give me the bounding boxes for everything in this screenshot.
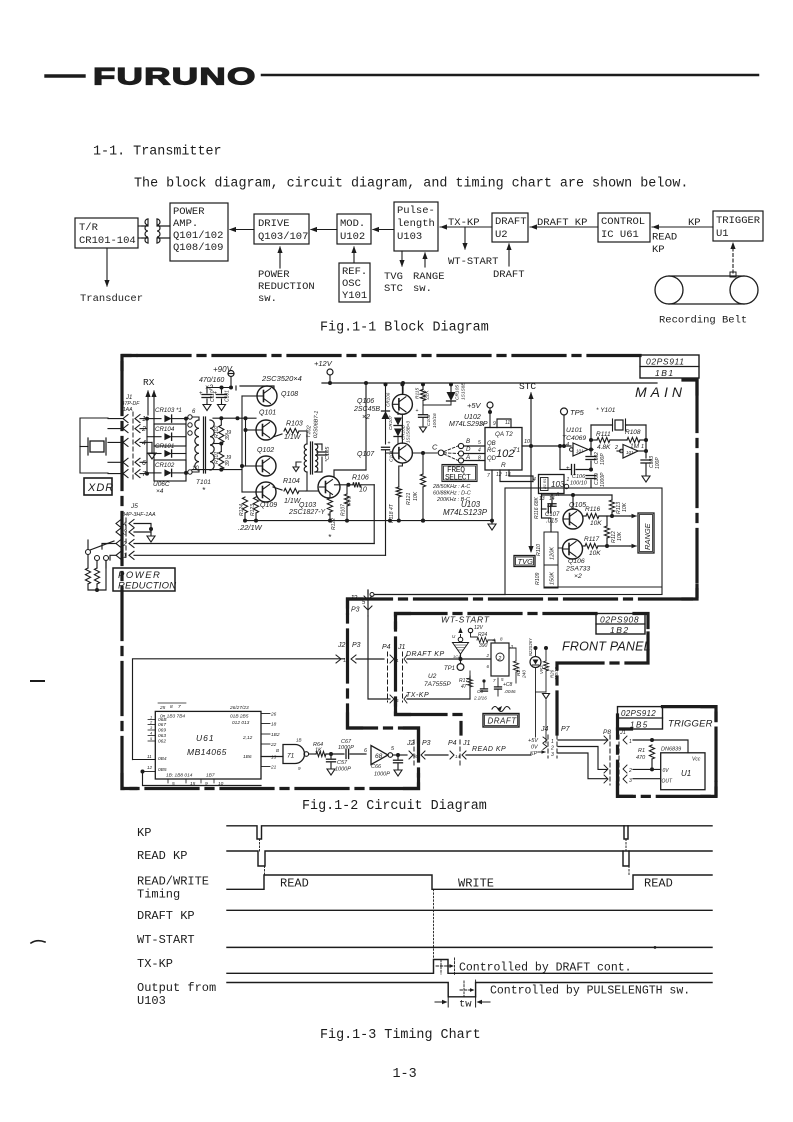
wire diode output bus (185, 419, 187, 473)
svg-text:DRAFT: DRAFT (493, 269, 525, 281)
margin mark 1 (31, 680, 44, 682)
svg-text:C107: C107 (545, 512, 560, 518)
svg-text:N22S26Y: N22S26Y (528, 637, 533, 656)
FURUNO logo (93, 63, 257, 90)
svg-text:J2: J2 (406, 740, 415, 747)
svg-text:T101: T101 (196, 479, 211, 486)
diode CR101 (147, 453, 161, 455)
wire TRIGGER 0V (633, 768, 661, 770)
svg-text:READ KP: READ KP (137, 849, 187, 863)
svg-text:2SC45B: 2SC45B (353, 406, 380, 413)
svg-text:390: 390 (479, 643, 488, 649)
svg-text:3: 3 (150, 725, 153, 730)
svg-text:2SC1827-Y: 2SC1827-Y (288, 509, 327, 516)
svg-text:MOD.: MOD. (340, 218, 365, 230)
svg-text:U102: U102 (340, 231, 365, 243)
J1 pin 2 (123, 425, 128, 433)
svg-text:7: 7 (487, 473, 490, 479)
svg-text:15: 15 (190, 781, 196, 787)
inverter U101b (623, 445, 638, 459)
IC U1 DN6839 (661, 753, 705, 790)
guide dotted KP2 (625, 839, 627, 851)
svg-text:68: 68 (375, 753, 383, 760)
svg-text:P3: P3 (352, 642, 361, 649)
svg-text:7: 7 (178, 704, 181, 710)
J1 pin 6 (123, 458, 128, 466)
diode CR104 (147, 436, 161, 438)
svg-text:P4: P4 (382, 644, 391, 651)
ground (front panel) (536, 691, 547, 693)
wire U102 pin7 ground bus (491, 470, 493, 521)
board id box 02PS911 1B1 (640, 355, 699, 378)
svg-text:J2: J2 (337, 642, 346, 649)
resistor R122 (327, 498, 332, 512)
svg-text:2: 2 (614, 445, 618, 451)
callout bracket U103 (463, 981, 465, 997)
NAND gate 71 (283, 745, 305, 764)
svg-text:069: 069 (158, 728, 166, 734)
waveform Output U103 (227, 983, 712, 997)
draft potentiometer (492, 707, 510, 712)
svg-text:102: 102 (496, 448, 514, 460)
capacitor C109 1000P (590, 468, 592, 471)
svg-text:+12V: +12V (314, 359, 333, 368)
svg-text:CONTROL: CONTROL (601, 216, 645, 228)
transformer (block diagram) (145, 219, 148, 243)
svg-text:MB14065: MB14065 (187, 747, 227, 757)
svg-text:47: 47 (461, 684, 467, 690)
transformer T101 (188, 415, 192, 419)
svg-text:J5: J5 (130, 503, 138, 510)
svg-text:1K: 1K (315, 748, 322, 754)
svg-text:10K: 10K (413, 491, 419, 501)
J1 pin 4 (123, 438, 128, 446)
waveform DRAFT KP (227, 909, 712, 911)
svg-text:CR104: CR104 (155, 426, 175, 433)
tw measurement (447, 997, 449, 1007)
svg-text:13: 13 (271, 755, 277, 761)
svg-text:C106: C106 (572, 474, 586, 480)
wire DRAFT to WT-START (464, 227, 466, 249)
svg-text:10: 10 (524, 439, 531, 445)
svg-text:4: 4 (566, 442, 569, 448)
arrow POWER REDUCTION sw to DRIVE (279, 247, 281, 268)
svg-text:R24: R24 (478, 632, 487, 638)
svg-text:71: 71 (287, 753, 295, 760)
svg-text:10: 10 (218, 781, 224, 787)
svg-text:10K: 10K (617, 531, 623, 541)
IC U61 MB14065 (155, 711, 261, 779)
svg-text:1B: 1B8 014: 1B: 1B8 014 (166, 773, 193, 779)
svg-text:R109: R109 (535, 572, 541, 585)
svg-text:28/50KHz : A-C: 28/50KHz : A-C (432, 484, 470, 490)
wire R118 R121 bottom (243, 519, 247, 523)
svg-text:1: 1 (641, 444, 644, 450)
svg-text:Q106: Q106 (568, 558, 585, 565)
svg-text:100P: 100P (655, 457, 661, 469)
capacitor C110 (207, 387, 231, 389)
wire U103 pins (541, 494, 543, 510)
svg-text:TC4069: TC4069 (562, 435, 586, 442)
svg-text:POWER: POWER (258, 269, 290, 281)
capacitor C107 .015 (547, 505, 549, 513)
diode CR103 (147, 418, 161, 420)
wire U61 pin12 loop (143, 772, 262, 786)
svg-text:11: 11 (394, 658, 399, 663)
svg-text:Q103: Q103 (299, 502, 316, 509)
svg-text:READ: READ (652, 232, 677, 244)
svg-text:sw.: sw. (413, 283, 432, 295)
svg-text:TRIGGER: TRIGGER (668, 719, 713, 730)
svg-text:Q107: Q107 (357, 451, 375, 458)
svg-text:2: 2 (486, 653, 490, 658)
svg-text:Q108: Q108 (281, 391, 298, 398)
svg-text:Recording Belt: Recording Belt (659, 315, 747, 327)
crystal transducer XDR (90, 441, 104, 452)
svg-text:R108: R108 (625, 429, 641, 436)
svg-text:3: 3 (123, 530, 127, 537)
svg-text:-1AA: -1AA (121, 407, 133, 413)
svg-text:8: 8 (478, 456, 481, 462)
svg-text:STC: STC (519, 381, 536, 392)
svg-text:U2: U2 (495, 229, 508, 241)
op-amp 68 (371, 746, 388, 765)
svg-text:.0046: .0046 (504, 689, 516, 694)
terminal 12V (front panel) (468, 628, 472, 632)
resistor R109 150K (544, 565, 558, 588)
arrow REF OSC to MOD (353, 247, 355, 262)
svg-text:DRAFT KP: DRAFT KP (137, 909, 195, 923)
POWER REDUCTION label box (113, 568, 175, 591)
svg-text:2.2/16: 2.2/16 (473, 696, 487, 701)
svg-text:240: 240 (522, 670, 528, 679)
wire J2 stc feed (370, 593, 374, 597)
IC U2 TA7555P box (491, 643, 509, 676)
svg-text:+5V: +5V (467, 401, 482, 410)
svg-text:P3: P3 (422, 740, 431, 747)
wire U102 pins 12 13 to U103 (500, 470, 533, 482)
svg-text:WT-START: WT-START (441, 615, 490, 625)
svg-text:39: 39 (225, 460, 231, 466)
wire J5 pins 4 3 join (134, 524, 151, 533)
guide dotted KP1 (259, 839, 261, 851)
svg-text:DRIVE: DRIVE (258, 218, 290, 230)
svg-text:P4: P4 (448, 740, 457, 747)
svg-text:U: U (452, 634, 456, 639)
transistor Q106 (563, 539, 583, 559)
svg-text:*C105: *C105 (325, 446, 331, 462)
svg-text:1000P: 1000P (374, 772, 390, 778)
wire TRIGGER OUT (633, 778, 661, 780)
svg-text:2SC3520×4: 2SC3520×4 (261, 374, 302, 383)
svg-text:100/16: 100/16 (432, 413, 438, 428)
resistor R113 10K (609, 500, 614, 512)
svg-text:R124: R124 (239, 504, 245, 516)
svg-text:FRONT PANEL: FRONT PANEL (562, 640, 651, 654)
svg-text:Q102: Q102 (257, 447, 274, 454)
svg-text:100P: 100P (600, 453, 606, 465)
waveform WT-START (227, 946, 712, 948)
svg-text:B: B (276, 748, 279, 753)
DRAFT label box (483, 714, 519, 728)
svg-text:sw.: sw. (258, 293, 277, 305)
svg-text:Controlled by PULSELENGTH sw.: Controlled by PULSELENGTH sw. (490, 985, 690, 998)
svg-text:TVG: TVG (518, 557, 534, 566)
test point TP5 (561, 408, 568, 415)
block Pulse-length U103 (394, 202, 438, 251)
header rule (262, 74, 758, 77)
svg-text:Fig.1-3 Timing Chart: Fig.1-3 Timing Chart (320, 1028, 481, 1043)
svg-text:CR106: CR106 (386, 392, 391, 407)
diode CR108 (394, 429, 402, 437)
board id box 02PS908 1B2 (596, 614, 645, 635)
block DRIVE Q103/107 (254, 214, 309, 244)
guide dotted WRITE edge (433, 889, 435, 959)
svg-text:M74LS293P: M74LS293P (449, 421, 488, 428)
select contacts B D A (458, 443, 463, 448)
svg-text:Q106: Q106 (357, 398, 374, 405)
svg-text:C66: C66 (371, 764, 382, 770)
resistor R102 39 (219, 425, 224, 443)
svg-text:tw: tw (459, 999, 472, 1011)
svg-text:Q108/109: Q108/109 (173, 242, 223, 254)
svg-text:12: 12 (147, 765, 153, 770)
capacitor C108 100/16 (422, 401, 424, 415)
svg-text:M74LS123P: M74LS123P (443, 508, 488, 517)
comparator U3 (460, 629, 462, 637)
svg-text:+C8: +C8 (503, 682, 513, 688)
svg-text:3: 3 (551, 752, 554, 758)
ground at J1 pin 4 (147, 441, 152, 443)
wire U102 pin10 (522, 445, 571, 447)
svg-text:2: 2 (141, 426, 146, 433)
svg-text:2,12: 2,12 (242, 735, 253, 741)
wire gate to R64 (309, 753, 316, 755)
svg-text:T102: T102 (306, 425, 312, 438)
resistor R118 4T (399, 463, 403, 487)
svg-text:7: 7 (493, 678, 496, 683)
svg-text:60/88KHz : D-C: 60/88KHz : D-C (433, 491, 471, 497)
svg-text:P7: P7 (561, 726, 571, 733)
J5 pin 2 (116, 540, 121, 548)
svg-text:R122: R122 (331, 518, 337, 530)
svg-text:1-1. Transmitter: 1-1. Transmitter (93, 145, 222, 160)
svg-text:10K: 10K (589, 550, 601, 557)
wire J5 pin2 stub (108, 543, 116, 545)
svg-text:STC: STC (384, 283, 403, 295)
margin mark 2 (31, 941, 45, 943)
diode CR102 (147, 472, 161, 474)
thyristor VR2 (530, 657, 541, 668)
svg-text:U1: U1 (716, 228, 729, 240)
svg-text:B: B (466, 438, 470, 445)
svg-text:5: 5 (396, 698, 399, 703)
svg-text:1B5: 1B5 (630, 721, 649, 730)
wire TRIGGER Vcc (633, 740, 688, 753)
svg-text:012 013: 012 013 (232, 720, 250, 726)
svg-text:062: 062 (158, 739, 166, 745)
svg-text:18: 18 (271, 722, 277, 728)
svg-text:+: + (416, 408, 419, 414)
svg-text:Pulse-: Pulse- (397, 205, 435, 217)
svg-text:0V: 0V (531, 745, 539, 751)
svg-text:R104: R104 (283, 478, 300, 485)
svg-text:12V: 12V (474, 625, 484, 631)
svg-text:CR105: CR105 (455, 385, 461, 400)
svg-text:0B4: 0B4 (158, 756, 167, 762)
wire T/R to transformer (138, 225, 142, 227)
wire TX-KP (368, 616, 390, 699)
inverter U101a (573, 443, 588, 456)
svg-text:5: 5 (362, 600, 366, 606)
svg-text:10K: 10K (622, 502, 628, 512)
wire TVG branch (542, 509, 552, 525)
svg-text:R106: R106 (352, 475, 369, 482)
svg-text:Q101: Q101 (259, 410, 276, 417)
arrow TRIGGER to CONTROL (652, 226, 713, 228)
svg-text:READ/WRITE: READ/WRITE (137, 875, 209, 889)
svg-text:R102: R102 (214, 425, 220, 438)
block CONTROL IC U61 (598, 213, 650, 242)
switch resistors (85, 568, 90, 584)
svg-text:R123: R123 (250, 504, 256, 516)
waveform READ KP (227, 851, 712, 866)
svg-text:The block diagram, circuit dia: The block diagram, circuit diagram, and … (134, 176, 688, 191)
svg-text:REDUCTION: REDUCTION (258, 281, 315, 293)
block T/R CR101-104 (75, 218, 138, 248)
svg-text:2: 2 (550, 746, 554, 752)
resistor R115 22K (420, 390, 425, 401)
capacitor C66 1000P (397, 755, 399, 759)
J5 pin 1 (116, 551, 121, 559)
svg-text:U2: U2 (428, 673, 437, 680)
svg-text:063: 063 (158, 733, 166, 739)
svg-text:T1: T1 (513, 448, 520, 454)
svg-text:+: + (214, 390, 218, 397)
transistor Q107 (392, 443, 412, 463)
svg-text:2: 2 (628, 768, 632, 774)
svg-text:Controlled by DRAFT cont.: Controlled by DRAFT cont. (459, 962, 632, 975)
diode CR107 (397, 412, 399, 414)
svg-text:TVG: TVG (384, 271, 403, 283)
svg-text:RX: RX (143, 377, 155, 388)
svg-text:0B5: 0B5 (158, 767, 167, 773)
svg-text:×4: ×4 (156, 488, 164, 495)
svg-text:11: 11 (343, 658, 348, 664)
wire inverter feed (559, 446, 561, 470)
connector TX-KP pin5 (390, 695, 394, 703)
svg-text:+: + (199, 390, 203, 397)
svg-text:21: 21 (270, 765, 277, 771)
svg-text:READ KP: READ KP (472, 746, 506, 753)
svg-text:1B2: 1B2 (271, 732, 280, 738)
svg-text:02PS908: 02PS908 (600, 615, 639, 625)
svg-text:J1: J1 (397, 644, 406, 651)
U61 right pin labels (261, 713, 270, 715)
svg-text:1B6: 1B6 (243, 754, 252, 760)
resistor R106 10 (335, 484, 353, 486)
wire transistor bases (242, 395, 256, 397)
svg-text:5: 5 (150, 736, 153, 741)
svg-text:RC: RC (487, 448, 496, 454)
svg-text:R121: R121 (406, 492, 412, 505)
svg-text:P3: P3 (351, 607, 360, 614)
svg-text:1B: 1B (296, 738, 302, 743)
recording belt (655, 276, 683, 304)
svg-text:1S1S8B: 1S1S8B (461, 382, 467, 400)
svg-text:14: 14 (455, 754, 461, 759)
svg-text:470: 470 (347, 496, 353, 505)
svg-text:11: 11 (147, 754, 152, 759)
svg-text:6: 6 (487, 664, 490, 669)
svg-text:22K: 22K (425, 390, 431, 401)
svg-text:*: * (202, 486, 206, 495)
arrow DRIVE to POWER AMP (230, 229, 254, 231)
svg-text:9: 9 (493, 421, 496, 427)
transistor Q104 (392, 394, 412, 414)
svg-text:TP5: TP5 (570, 408, 585, 417)
svg-text:101: 101 (576, 449, 584, 454)
capacitor C103 100P (641, 459, 651, 461)
svg-text:D: D (466, 446, 471, 453)
svg-text:J2: J2 (349, 595, 358, 602)
diode CR106 (385, 384, 387, 411)
svg-text:R1: R1 (638, 748, 645, 754)
svg-text:25: 25 (159, 705, 166, 711)
wire T101 secondary to amp (213, 417, 256, 419)
arrow Pulse-length to TVG STC (401, 251, 403, 266)
transformer T102 (304, 444, 307, 472)
crystal Y101 (615, 420, 623, 430)
svg-text:1000P: 1000P (338, 745, 354, 751)
svg-text:3: 3 (629, 778, 632, 784)
svg-text:* Y101: * Y101 (596, 407, 616, 414)
svg-text:RANGE: RANGE (413, 271, 445, 283)
wire J1 pin bus (146, 419, 148, 474)
svg-text:9: 9 (298, 766, 301, 771)
svg-text:26/27/23: 26/27/23 (229, 705, 249, 711)
dashed select lines (444, 446, 458, 452)
svg-text:A: A (465, 454, 470, 461)
J5 pin 3 (116, 528, 121, 536)
J1 pin 1 (123, 415, 128, 423)
diode box CR102 (154, 460, 186, 481)
block TRIGGER U1 (713, 211, 763, 241)
resistor R107 470 (344, 494, 349, 506)
svg-text:2: 2 (497, 656, 501, 662)
svg-text:TX-KP: TX-KP (406, 692, 429, 699)
svg-text:6: 6 (192, 409, 196, 415)
svg-text:Timing: Timing (137, 888, 180, 902)
diode CR105 (447, 392, 456, 401)
svg-text:1B2: 1B2 (610, 625, 630, 635)
MAIN board frame (122, 356, 697, 789)
svg-text:WT-START: WT-START (137, 933, 195, 947)
resistor R103 1/1W (273, 434, 282, 437)
svg-text:R115: R115 (415, 388, 421, 399)
svg-text:Output from: Output from (137, 981, 216, 995)
svg-text:02PS912: 02PS912 (621, 709, 656, 718)
guide dotted RW2 (628, 866, 630, 875)
arrow CONTROL to DRAFT (530, 226, 598, 228)
svg-text:J1: J1 (462, 740, 471, 747)
svg-text:J4: J4 (540, 726, 549, 733)
svg-text:*: * (328, 533, 332, 542)
svg-text:J1: J1 (619, 730, 626, 736)
arrows into RANGE (630, 515, 636, 517)
svg-text:.22/1W: .22/1W (238, 523, 263, 532)
wire Q104 emitter chain (397, 413, 399, 416)
